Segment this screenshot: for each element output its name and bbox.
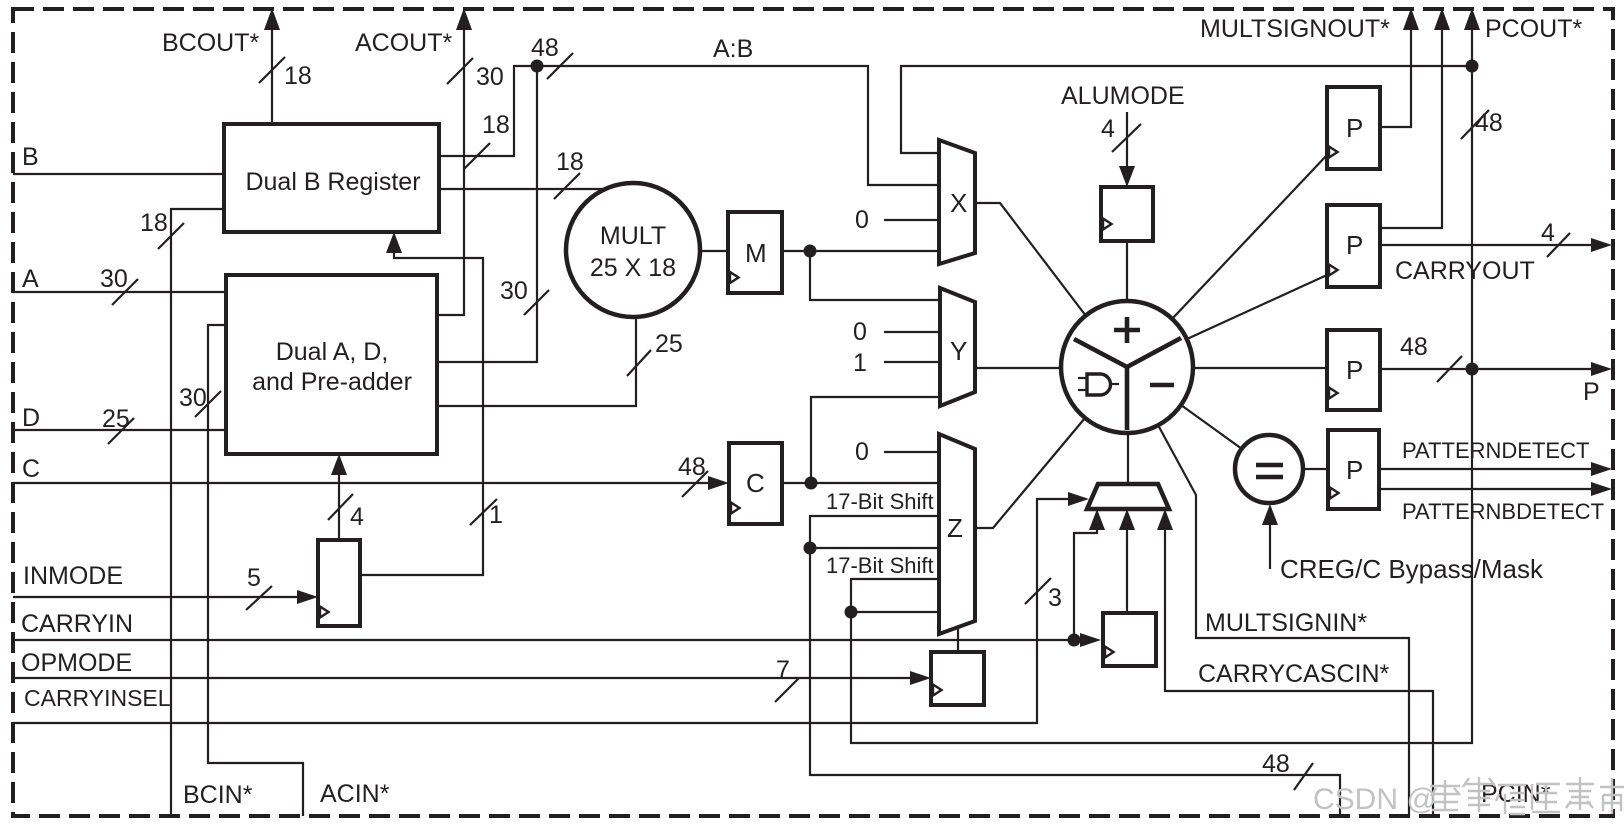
wire C input [13,476,729,490]
svg-text:C: C [22,455,40,483]
bus width 18 on B to A:B [464,111,510,169]
bus width 7 on OPMODE [775,656,799,702]
wire PATTERNDETECT output [1379,462,1612,476]
ALU AND-gate symbol [1078,374,1119,395]
junction A:B [531,60,544,73]
svg-text:B: B [22,143,39,171]
mux Z [939,434,975,634]
svg-text:ACIN*: ACIN* [320,780,390,808]
svg-text:48: 48 [531,34,559,62]
svg-text:3: 3 [1048,584,1062,612]
wire BCIN cascade input [171,209,224,816]
mux X [939,140,975,264]
junction PCIN [804,542,817,555]
wire ALUMODE input [1119,112,1135,187]
wire PCOUT [1464,8,1480,66]
svg-text:CREG/C Bypass/Mask: CREG/C Bypass/Mask [1280,554,1544,584]
wire CARRYIN input [13,633,1101,647]
svg-text:P: P [1346,230,1363,260]
bus width 4 on ALUMODE [1101,115,1141,152]
wire P feedback down right side [851,66,1472,743]
wire X mux to ALU [975,203,1086,316]
wire CARRYOUT output [1380,238,1612,252]
register P1 [1327,87,1380,169]
junction P feedback [845,606,858,619]
ALU circle [1061,301,1193,433]
bus width 18 on B to MULT [554,148,584,199]
register M [728,212,782,293]
bus width 4 [328,494,364,531]
register C [729,443,782,524]
junction CARRYIN [1068,634,1081,647]
wire A register output to A:B bus [437,66,537,362]
wire D input [13,429,226,431]
svg-text:4: 4 [1101,115,1115,143]
svg-text:0: 0 [855,206,869,234]
svg-text:4: 4 [1541,219,1555,247]
bus width 48 on A:B [531,34,573,79]
svg-text:25: 25 [102,405,130,433]
bus width 25 on D [102,405,134,444]
svg-text:48: 48 [1262,750,1290,778]
wire CREG/C bypass mask into comparator [1262,504,1278,569]
svg-text:48: 48 [1475,109,1503,137]
svg-text:D: D [22,404,40,432]
svg-text:A: A [22,265,39,293]
wire PCIN to Z mux [810,547,939,549]
svg-text:INMODE: INMODE [23,562,123,590]
svg-text:MULTSIGNIN*: MULTSIGNIN* [1205,609,1367,637]
svg-text:18: 18 [140,209,168,237]
bus width 30 on A to A:B [500,277,549,315]
wire ACOUT cascade output [437,8,472,315]
wire ALUMODE register to ALU [1126,241,1128,301]
wire P output [1380,362,1612,376]
register OPMODE [931,652,984,705]
svg-text:Dual A, D,: Dual A, D, [276,338,389,366]
wire carry mux to ALU [1127,433,1129,484]
wire P feedback to X mux [901,66,1472,153]
constant 0 into Z mux [855,438,939,466]
svg-text:P: P [1346,455,1363,485]
svg-text:ALUMODE: ALUMODE [1061,82,1185,110]
bus width 4 on CARRYOUT [1541,219,1570,257]
wire A:B bus to X mux [537,66,939,185]
multiplier MULT 25x18 [566,183,700,317]
bus width 48 on PCIN [1262,750,1313,790]
svg-text:ACOUT*: ACOUT* [355,29,453,57]
svg-text:P: P [1346,355,1363,385]
mux Y [940,288,975,406]
wire P to Z mux [851,611,939,613]
svg-text:17-Bit Shift: 17-Bit Shift [826,489,934,514]
carry select mux [1087,484,1169,509]
svg-text:30: 30 [100,265,128,293]
svg-text:18: 18 [284,62,312,90]
svg-text:OPMODE: OPMODE [21,649,132,677]
wire MULT to M register [699,250,728,252]
svg-text:25 X 18: 25 X 18 [590,254,676,282]
svg-text:MULTSIGNOUT*: MULTSIGNOUT* [1200,15,1390,43]
svg-text:A:B: A:B [713,35,753,63]
bus width 30 on ACOUT [447,58,504,91]
wire ACIN cascade input [208,325,303,816]
svg-text:MULT: MULT [600,222,666,250]
junction PCOUT [1466,60,1479,73]
svg-text:P: P [1583,378,1600,406]
wire ALU to pattern comparator [1181,405,1242,449]
bus width 1 [470,499,503,529]
register P4 [1328,430,1379,509]
bus width 30 on A [100,265,138,305]
svg-text:Dual B Register: Dual B Register [245,168,420,196]
wire B register output to multiplier [439,188,608,190]
register Dual B [224,124,439,232]
svg-text:M: M [745,238,767,268]
wire M to X mux [782,250,940,252]
watermark CJK glyph blocks [1430,777,1624,814]
wire OPMODE register to Z mux [957,627,959,652]
svg-text:C: C [746,468,765,498]
junction C output [805,477,818,490]
wire OPMODE input [13,671,931,685]
svg-text:18: 18 [556,148,584,176]
svg-text:30: 30 [179,384,207,412]
junction P output feedback [1466,363,1479,376]
svg-text:and Pre-adder: and Pre-adder [252,368,412,396]
svg-text:30: 30 [476,63,504,91]
wire CARRYCASCOUT [1380,8,1450,228]
pattern comparator equals circle [1235,435,1303,503]
svg-text:CARRYOUT: CARRYOUT [1395,257,1535,285]
wire Y mux to ALU [975,367,1061,369]
wire BCOUT cascade output [264,8,280,124]
register ALUMODE [1101,187,1153,241]
svg-text:PCOUT*: PCOUT* [1485,15,1583,43]
wire P shifted to Z mux [851,579,939,612]
register Dual A D pre-adder [226,275,437,454]
junction M output [804,245,817,258]
svg-text:CSDN @: CSDN @ [1313,783,1437,816]
wire A output to multiplier [437,318,636,406]
svg-text:Z: Z [947,513,963,543]
register CARRYIN [1103,613,1156,666]
wire CARRYCASCIN input [1157,509,1433,816]
svg-text:BCOUT*: BCOUT* [162,29,260,57]
svg-text:30: 30 [500,277,528,305]
wire M to Y mux [810,251,940,300]
wire Z mux to ALU [975,418,1085,528]
wire comparator to P4 register [1303,468,1328,470]
svg-text:0: 0 [853,318,867,346]
svg-text:5: 5 [247,564,261,592]
svg-text:P: P [1346,113,1363,143]
wire INMODE register to Dual A,D [331,454,347,540]
register P3 [1327,330,1380,410]
svg-text:0: 0 [855,438,869,466]
svg-text:CARRYIN: CARRYIN [21,610,133,638]
wire INMODE input [13,590,318,604]
wire PCIN shifted to Z mux [810,516,939,548]
wire A input [13,291,226,293]
wire CARRYIN to carry mux [1074,509,1105,640]
wire PCIN input [810,548,1340,816]
svg-text:PATTERNDETECT: PATTERNDETECT [1402,438,1589,463]
ALU minus symbol [1150,383,1174,388]
svg-text:Y: Y [950,336,967,366]
register P2 [1327,205,1380,287]
bus width 48 on C [678,453,708,497]
wire MULTSIGNOUT [1380,8,1419,127]
constant 0 into Y mux [853,318,940,346]
svg-text:CARRYINSEL: CARRYINSEL [24,685,171,711]
bus width 25 on A to MULT [627,330,683,376]
wire B register output to A:B bus [439,66,537,156]
bus width 5 on INMODE [246,564,272,610]
svg-text:BCIN*: BCIN* [183,781,253,809]
wire C register output to Z mux [782,482,939,484]
constant 0 into X mux [855,206,940,234]
wire CARRYINSEL input [13,492,1089,723]
ALU plus symbol [1114,317,1140,343]
svg-text:17-Bit Shift: 17-Bit Shift [826,553,934,578]
bus width 30 on ACIN [179,384,221,417]
wire PATTERNBDETECT output [1379,482,1612,496]
svg-text:25: 25 [655,330,683,358]
svg-text:CARRYCASCIN*: CARRYCASCIN* [1198,660,1390,688]
watermark CSDN [1313,783,1437,816]
svg-text:7: 7 [776,656,790,684]
wire ALU to P3 register [1193,367,1327,369]
wire MULTSIGNIN input [1158,425,1409,816]
svg-text:X: X [950,188,967,218]
wire INMODE register to Dual B [360,232,483,575]
wire B input [13,173,224,175]
svg-text:18: 18 [482,111,510,139]
svg-text:4: 4 [350,503,364,531]
svg-text:48: 48 [1400,333,1428,361]
bus width 48 on PCOUT feedback [1461,109,1503,139]
bus width 18 on BCOUT [259,57,312,90]
bus width 3 on CARRYINSEL [1025,578,1062,612]
wire ALU to P1 register [1172,155,1327,319]
wire C to Y mux [811,397,940,483]
bus width 18 on BCIN [140,209,184,249]
wire CARRYIN register to carry mux [1119,509,1135,613]
bus width 48 on P [1400,333,1462,382]
register INMODE [318,540,360,626]
svg-text:PATTERNBDETECT: PATTERNBDETECT [1402,499,1604,524]
svg-text:1: 1 [853,349,867,377]
constant 1 into Y mux [853,349,940,377]
wire ALU to P2 register [1187,275,1327,339]
